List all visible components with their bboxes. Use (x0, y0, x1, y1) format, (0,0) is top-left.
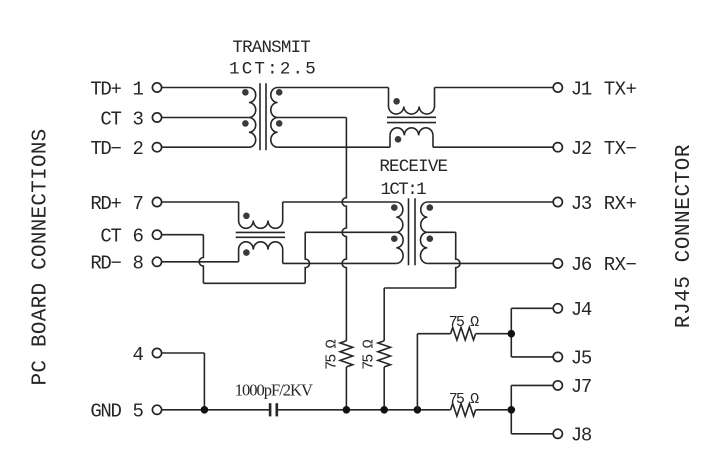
wire T2 secondary bottom to J6 (427, 262, 553, 264)
wire T1 secondary CT (278, 117, 347, 119)
wire T2 CT return horizontal (384, 287, 456, 289)
pin 5 terminal (152, 405, 161, 414)
T1 primary dot lower (242, 120, 249, 127)
transformer T1 primary winding (249, 88, 256, 148)
wire pin3 to T1 primary CT (162, 117, 249, 119)
label RX− (604, 254, 637, 276)
label RX+ (604, 193, 637, 215)
svg-text:J4: J4 (571, 299, 592, 321)
label TRANSMIT (232, 38, 310, 58)
T2 secondary dot upper (427, 204, 434, 211)
svg-text:4: 4 (132, 344, 143, 366)
pin 5 label (132, 401, 143, 423)
svg-text:CT: CT (100, 226, 121, 248)
svg-text:J1: J1 (571, 78, 592, 100)
label GND (90, 401, 121, 423)
wire pin6 segment (162, 234, 204, 236)
capacitor C1 1000pF/2KV (270, 403, 277, 416)
junction R3 riser (508, 330, 516, 338)
label J3 (571, 193, 592, 215)
label J2 (571, 138, 592, 160)
resistor R3 75 ohm (451, 327, 476, 340)
wire T1 secondary bottom to L1 (278, 146, 390, 148)
label RECEIVE (379, 157, 447, 177)
svg-text:RX+: RX+ (604, 193, 637, 215)
label TD− (90, 138, 121, 160)
pin 3 terminal (152, 113, 161, 122)
T2 primary dot lower (391, 235, 398, 242)
transformer T2 core (409, 198, 416, 265)
junction R2-GND (380, 406, 388, 414)
label J7 (571, 376, 591, 398)
wire R4 to junction (476, 409, 512, 411)
pin 6 label (132, 226, 143, 248)
wire J7/J8 riser (511, 385, 553, 433)
T1 secondary dot lower (276, 120, 283, 127)
pin 1 terminal (152, 83, 161, 92)
svg-text:3: 3 (132, 108, 143, 130)
pin 3 label (132, 108, 143, 130)
wire pin4 drop (203, 353, 205, 410)
svg-text:1: 1 (132, 78, 143, 100)
wire R2 to ground rail (383, 367, 385, 410)
label TX− (604, 138, 637, 160)
junction R1-GND (343, 406, 351, 414)
label R2 75 ohm (361, 339, 378, 369)
svg-text:TD−: TD− (90, 138, 121, 160)
wire GND rail middle (277, 409, 451, 411)
pin 7 terminal (152, 197, 161, 206)
wire GND rail left (162, 409, 270, 411)
wire pin6 under choke (203, 282, 305, 284)
resistor R1 75 ohm (340, 341, 353, 367)
wire L1 to J2 (433, 146, 553, 148)
pin 2 label (132, 138, 143, 160)
label J4 (571, 299, 592, 321)
label RD− (90, 253, 121, 275)
wire T1 CT vertical with hops (342, 118, 346, 341)
wire pin6 drop with hop (199, 235, 203, 284)
choke L2 top winding (239, 202, 283, 228)
choke L2 bottom winding (239, 242, 283, 264)
wire T1 secondary top to L1 (278, 87, 389, 89)
wire T2 secondary top to J3 (427, 201, 553, 203)
wire pin1 to T1 primary (162, 87, 249, 89)
svg-text:1CT:2.5: 1CT:2.5 (229, 60, 318, 80)
label RD+ (90, 193, 121, 215)
svg-text:J5: J5 (571, 348, 592, 370)
wire pin2 to T1 primary (162, 146, 249, 148)
T1 primary dot upper (242, 89, 249, 96)
label R1 75 ohm (324, 339, 341, 369)
wire J4/J5 riser (511, 308, 553, 357)
terminal J5 (553, 352, 562, 361)
pin 6 terminal (152, 230, 161, 239)
terminal J8 (553, 429, 562, 438)
L2 top dot (243, 213, 250, 220)
pin 4 label (132, 344, 143, 366)
label TD+ (90, 78, 121, 100)
wire GND to R3 (417, 334, 450, 410)
T2 primary dot upper (391, 204, 398, 211)
transformer T2 secondary winding (420, 202, 427, 263)
transformer T2 primary winding (396, 202, 403, 263)
resistor R4 75 ohm (451, 404, 476, 417)
L1 bottom dot (395, 136, 402, 143)
svg-text:1000pF/2KV: 1000pF/2KV (235, 381, 313, 400)
terminal J6 (553, 259, 562, 268)
wire L1 to J1 (435, 87, 554, 89)
label CT (100, 108, 121, 130)
svg-text:75 Ω: 75 Ω (449, 391, 479, 408)
svg-text:J7: J7 (571, 376, 591, 398)
terminal J2 (553, 143, 562, 152)
choke L2 core (236, 232, 285, 237)
terminal J4 (553, 304, 562, 313)
svg-text:J3: J3 (571, 193, 592, 215)
label J5 (571, 348, 592, 370)
pin 8 terminal (152, 257, 161, 266)
wire R1 to ground rail (345, 367, 347, 410)
svg-text:7: 7 (132, 193, 142, 215)
svg-text:TD+: TD+ (90, 78, 121, 100)
choke L1 top winding (389, 88, 435, 115)
terminal J1 (553, 83, 562, 92)
pin 8 label (132, 253, 143, 275)
T1 secondary dot upper (276, 89, 283, 96)
svg-text:RD+: RD+ (90, 193, 121, 215)
wire T2 secondary CT (427, 231, 455, 233)
choke L1 bottom winding (390, 128, 433, 147)
svg-text:TX−: TX− (604, 138, 637, 160)
svg-text:RJ45 CONNECTOR: RJ45 CONNECTOR (673, 144, 696, 328)
wire pin8 to L2 (162, 261, 239, 263)
wire R3 to junction (476, 333, 512, 335)
label C1 1000pF/2KV (235, 381, 313, 400)
wire L2 to T2 primary bottom (283, 262, 397, 264)
label J8 (571, 425, 592, 447)
label 1CT:2.5 (229, 60, 318, 80)
label J6 (571, 254, 592, 276)
svg-text:6: 6 (132, 226, 143, 248)
label J1 (571, 78, 592, 100)
junction R4 riser (508, 406, 516, 414)
wire to R2 (383, 288, 385, 341)
transformer T1 secondary winding (271, 88, 278, 148)
svg-text:RX−: RX− (604, 254, 637, 276)
svg-text:RECEIVE: RECEIVE (379, 157, 447, 177)
svg-text:TRANSMIT: TRANSMIT (232, 38, 310, 58)
choke L1 core (387, 117, 436, 122)
svg-text:2: 2 (132, 138, 143, 160)
svg-text:GND: GND (90, 401, 121, 423)
wire pin7 to L2 (162, 201, 239, 203)
pin 1 label (132, 78, 143, 100)
svg-text:75 Ω: 75 Ω (449, 314, 479, 331)
terminal J7 (553, 381, 562, 390)
label 1CT:1 (381, 180, 427, 200)
label R4 75 ohm (449, 391, 479, 408)
label PC BOARD CONNECTIONS (30, 128, 53, 385)
pin 7 label (132, 193, 142, 215)
resistor R2 75 ohm (378, 341, 391, 367)
terminal J3 (553, 197, 562, 206)
svg-text:CT: CT (100, 108, 121, 130)
transformer T1 core (260, 83, 266, 150)
svg-text:TX+: TX+ (604, 78, 637, 100)
svg-text:PC BOARD CONNECTIONS: PC BOARD CONNECTIONS (30, 128, 53, 385)
wire pin6 riser with hop (305, 232, 309, 283)
svg-text:1CT:1: 1CT:1 (381, 180, 427, 200)
svg-text:RD−: RD− (90, 253, 121, 275)
svg-text:75 Ω: 75 Ω (361, 339, 378, 369)
svg-text:5: 5 (132, 401, 143, 423)
label TX+ (604, 78, 637, 100)
wire L2 to T2 primary top (283, 201, 397, 203)
svg-text:75 Ω: 75 Ω (324, 339, 341, 369)
wire T2 CT return drop with hop (456, 232, 460, 288)
L2 bottom dot (243, 249, 250, 256)
label RJ45 CONNECTOR (673, 144, 696, 328)
junction R3 tap-GND (414, 406, 422, 414)
T2 secondary dot lower (427, 235, 434, 242)
wire pin6 to T2 primary CT (305, 231, 396, 233)
junction pin4-GND (201, 406, 209, 414)
wire pin4 segment (162, 352, 205, 354)
svg-text:J6: J6 (571, 254, 592, 276)
label R3 75 ohm (449, 314, 479, 331)
svg-text:8: 8 (132, 253, 143, 275)
L1 top dot (393, 98, 400, 105)
svg-text:J8: J8 (571, 425, 592, 447)
pin 2 terminal (152, 143, 161, 152)
pin 4 terminal (152, 348, 161, 357)
svg-text:J2: J2 (571, 138, 592, 160)
label CT (100, 226, 121, 248)
